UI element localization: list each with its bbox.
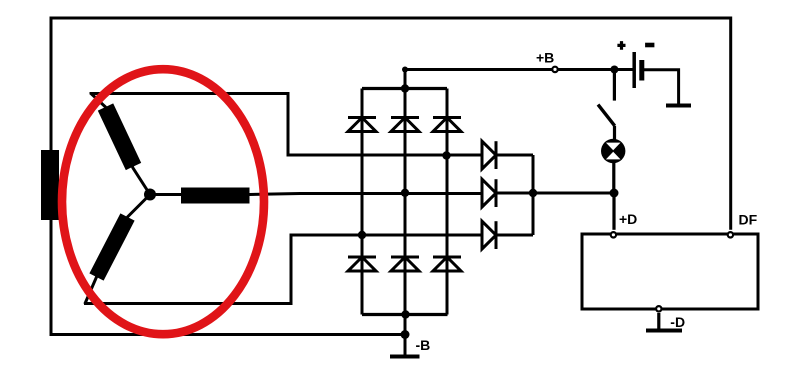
indicator lamp <box>601 139 625 163</box>
regulator box <box>582 234 758 309</box>
wire: right vertical (to DF terminal) <box>729 17 732 230</box>
wire: node to +D terminal <box>612 193 615 230</box>
wire: battery negative to ground <box>644 70 679 105</box>
svg-text:+D: +D <box>619 211 637 227</box>
stator winding phase C (lower-left bar) <box>97 217 128 277</box>
diode D4 (lower row, col 1) <box>348 257 376 271</box>
junction: lamp / trio output / +D <box>610 189 619 198</box>
terminal +B (open circle) <box>552 67 557 72</box>
wire: phase B lead (star to bar) <box>150 193 181 196</box>
wire: -D to ground <box>657 313 660 329</box>
junction: trio bus at output row <box>529 189 537 197</box>
wire: D9 cathode to right bus <box>496 234 533 237</box>
wire: phase A horizontal run <box>91 94 482 156</box>
wire: left vertical (field winding branch) <box>50 17 53 337</box>
svg-text:+B: +B <box>536 50 554 66</box>
svg-text:-B: -B <box>416 337 431 353</box>
wire: bridge top bus (+) <box>362 87 447 90</box>
diode D6 (lower row, col 3) <box>433 257 461 271</box>
junction: top bus at column 2 <box>401 84 409 92</box>
node: stator star point <box>144 189 156 201</box>
battery positive plate <box>632 52 636 88</box>
wire: trio output to +D / lamp node <box>496 192 614 195</box>
diode D2 (upper row, col 2) <box>391 118 419 132</box>
stator winding phase B (horizontal bar) <box>181 188 250 204</box>
junction: phase C at column 1 <box>358 231 366 239</box>
wire: switch to lamp <box>613 126 616 140</box>
svg-text:-D: -D <box>670 314 685 330</box>
wire: bridge column 1 <box>361 89 364 315</box>
wire: bridge column 2 (to +B and -B) <box>404 70 407 356</box>
wire: top horizontal (DF feed to field winding) <box>51 17 731 20</box>
wire: +B rail (bridge to battery) <box>405 68 634 71</box>
junction: +B wire at column 2 <box>402 67 408 73</box>
wire: D7 cathode to right bus <box>496 154 533 157</box>
field winding (rotor) bar <box>41 150 59 220</box>
wire: phase A lead (star to top corner) <box>91 94 150 195</box>
diode D3 (upper row, col 3) <box>433 118 461 132</box>
stator winding phase A (upper-left bar) <box>106 107 134 167</box>
junction: battery node <box>610 66 618 74</box>
battery - label <box>645 43 654 48</box>
junction: phase B at column 2 <box>401 189 409 197</box>
wire: bridge bottom bus (-) <box>362 313 448 316</box>
diode D8 (field trio, phase B row) <box>482 179 496 207</box>
terminal +D (open circle) <box>611 232 616 237</box>
ground (-B) <box>390 355 420 359</box>
ground (battery) <box>666 104 691 108</box>
switch (ignition, open blade) <box>598 105 615 126</box>
terminal -D (open circle) <box>656 306 661 311</box>
junction: bottom bus at column 2 <box>401 310 409 318</box>
ground (-D) <box>646 329 682 333</box>
junction: bottom wire at -B branch <box>401 330 410 339</box>
diode D7 (field trio, phase A row) <box>482 141 496 169</box>
diode D1 (upper row, col 1) <box>348 118 376 132</box>
wire: field trio right bus <box>532 155 535 235</box>
wire: phase C horizontal run <box>84 235 482 304</box>
diode D9 (field trio, phase C row) <box>482 221 496 249</box>
wire: bridge column 3 <box>446 89 449 315</box>
battery negative plate <box>639 60 644 81</box>
wire: battery node to switch <box>613 70 616 101</box>
junction: phase A at column 3 <box>442 151 450 159</box>
wire: lamp to +D node <box>612 162 615 193</box>
wire: bottom horizontal (field return to -B node) <box>51 333 406 336</box>
wire: phase C lead (star to bottom corner) <box>85 195 150 305</box>
battery + label <box>617 41 625 50</box>
wire: phase B horizontal run <box>250 194 483 195</box>
svg-text:DF: DF <box>739 211 758 227</box>
terminal DF (open circle) <box>728 232 733 237</box>
red highlight ellipse (stator) <box>62 69 264 334</box>
diode D5 (lower row, col 2) <box>391 257 419 271</box>
